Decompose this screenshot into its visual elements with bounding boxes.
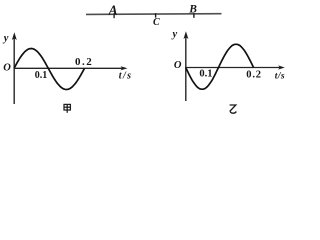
- left x-axis arrowhead: [121, 66, 128, 70]
- svg-text:y: y: [2, 33, 9, 44]
- svg-text:B: B: [188, 3, 197, 15]
- left graph y-axis: [13, 36, 15, 104]
- tick C: [155, 13, 157, 17]
- svg-text:0.2: 0.2: [75, 56, 93, 68]
- right graph y-axis: [185, 35, 187, 101]
- right graph x-axis: [185, 67, 281, 69]
- svg-text:A: A: [108, 3, 118, 18]
- svg-text:t/s: t/s: [119, 71, 133, 82]
- caption jia (甲) drawn strokes: [64, 104, 70, 112]
- right wave (graph yi): [186, 44, 254, 89]
- left y-axis arrowhead: [12, 32, 17, 40]
- string AB line: [86, 13, 222, 16]
- left wave (graph jia): [14, 49, 85, 90]
- right x-axis arrowhead: [278, 65, 285, 69]
- svg-text:O: O: [174, 60, 182, 71]
- tick B: [193, 13, 195, 17]
- svg-text:0.1: 0.1: [199, 68, 212, 79]
- left graph x-axis: [14, 67, 124, 69]
- svg-text:C: C: [153, 17, 160, 28]
- svg-text:O: O: [3, 63, 11, 74]
- caption yi (乙) drawn strokes: [230, 105, 237, 113]
- right y-axis arrowhead: [184, 31, 189, 39]
- tick A: [113, 13, 115, 18]
- svg-text:0.2: 0.2: [246, 70, 262, 81]
- svg-text:t/s: t/s: [275, 71, 285, 81]
- svg-text:y: y: [171, 29, 178, 40]
- svg-text:0.1: 0.1: [35, 70, 48, 81]
